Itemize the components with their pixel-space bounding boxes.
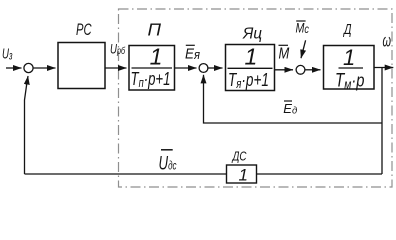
svg-text:Uрб: Uрб	[110, 41, 126, 57]
svg-text:1: 1	[343, 45, 355, 70]
svg-text:Tя·p+1: Tя·p+1	[228, 69, 269, 91]
svg-text:M: M	[279, 46, 290, 63]
svg-text:ω: ω	[383, 31, 392, 51]
svg-text:1: 1	[245, 44, 258, 70]
svg-text:Tп·p+1: Tп·p+1	[131, 68, 171, 90]
svg-text:П: П	[148, 20, 162, 40]
svg-text:Uдс: Uдс	[159, 154, 177, 175]
svg-text:Яц: Яц	[242, 25, 262, 42]
svg-text:Mс: Mс	[296, 21, 310, 37]
svg-text:РС: РС	[76, 20, 92, 39]
svg-text:Eд: Eд	[283, 101, 297, 116]
svg-text:1: 1	[239, 166, 248, 185]
svg-text:Uз: Uз	[2, 47, 13, 63]
svg-text:ДС: ДС	[231, 150, 247, 164]
svg-text:Д: Д	[343, 22, 352, 38]
svg-text:Eя: Eя	[185, 46, 200, 63]
svg-text:1: 1	[150, 44, 163, 70]
